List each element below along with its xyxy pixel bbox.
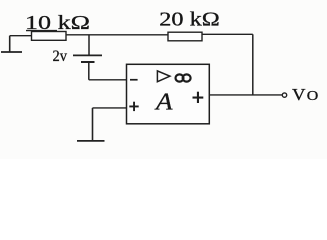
resistor R2 20k	[168, 32, 202, 41]
wire battery to inverting input	[89, 62, 127, 80]
wire output	[209, 94, 282, 96]
wire R2 to feedback corner	[202, 34, 253, 95]
ground G2	[77, 140, 105, 142]
svg-text:V: V	[292, 85, 306, 104]
op-amp plus sign left	[129, 102, 138, 111]
wire non-inverting input	[93, 108, 127, 141]
label 10 kΩ	[25, 12, 90, 34]
wire input left	[10, 35, 32, 37]
battery V1	[73, 55, 102, 62]
ground G1	[1, 36, 22, 52]
resistor R1 10k	[32, 32, 67, 41]
node Vo terminal	[282, 93, 286, 97]
svg-text:O: O	[307, 88, 319, 103]
svg-text:A: A	[154, 89, 173, 115]
op-amp minus sign	[130, 79, 138, 81]
infinity symbol	[176, 74, 191, 81]
op-amp ideal triangle	[157, 71, 170, 82]
wire R1 to R2 top rail	[66, 34, 168, 36]
wire junction down to battery	[88, 35, 90, 55]
svg-text:2v: 2v	[53, 48, 68, 65]
op-amp U1 box	[127, 64, 210, 124]
op-amp plus sign right	[193, 92, 204, 103]
svg-text:20 kΩ: 20 kΩ	[159, 9, 220, 31]
